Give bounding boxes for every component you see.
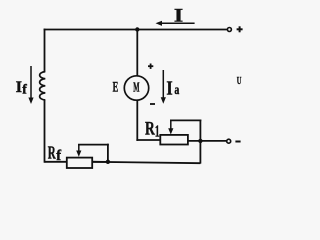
terminal plus (open circle): [227, 28, 231, 32]
arrow R1 wiper (down): [168, 120, 173, 134]
label minus of motor: [150, 103, 155, 105]
svg-text:1: 1: [155, 121, 160, 140]
label plus: [237, 26, 243, 32]
wire motor branch upper: [136, 30, 138, 77]
label Rf: [48, 143, 62, 164]
wire motor branch lower: [136, 100, 138, 141]
wire Rf loop right vertical: [107, 144, 109, 163]
label Ia: [166, 78, 179, 100]
arrow If current (down): [28, 66, 33, 104]
svg-text:M: M: [133, 80, 139, 95]
wire left vertical lower: [44, 100, 46, 163]
arrow Ia current (down): [161, 70, 166, 104]
inductor field winding Lf: [40, 72, 46, 100]
wire R1 wiper loop top: [170, 119, 201, 121]
resistor R1 body: [160, 135, 188, 145]
label plus of motor: [148, 64, 153, 69]
node top junction dot: [135, 27, 139, 31]
svg-text:I: I: [174, 6, 183, 27]
resistor Rf body: [67, 158, 92, 168]
terminal minus (open circle): [227, 139, 231, 143]
svg-text:a: a: [174, 83, 179, 98]
wire bottom bus right: [92, 161, 108, 163]
svg-text:I: I: [16, 79, 22, 96]
motor M circle: [124, 76, 148, 100]
svg-text:R: R: [48, 143, 56, 163]
wire left vertical upper: [44, 29, 46, 72]
svg-text:U: U: [237, 76, 242, 87]
wire bottom bus left: [45, 161, 67, 163]
node R1 output junction dot: [198, 139, 202, 143]
arrow Rf wiper (down): [76, 145, 81, 157]
wire Rf wiper loop top: [78, 144, 109, 146]
label If: [16, 79, 28, 97]
wire top bus: [44, 29, 228, 31]
wire R1 to minus terminal: [188, 140, 227, 142]
node Rf junction dot: [106, 160, 110, 164]
wire motor to R1: [136, 139, 160, 141]
arrow I main current (left): [156, 21, 195, 26]
wire bottom bus to R1 node: [92, 162, 200, 163]
label minus: [235, 141, 240, 143]
label R1: [145, 119, 160, 141]
svg-text:E: E: [113, 79, 119, 95]
svg-text:I: I: [166, 78, 172, 100]
svg-text:f: f: [22, 82, 27, 97]
wire R1 loop right vertical down to bottom bus: [199, 120, 201, 164]
